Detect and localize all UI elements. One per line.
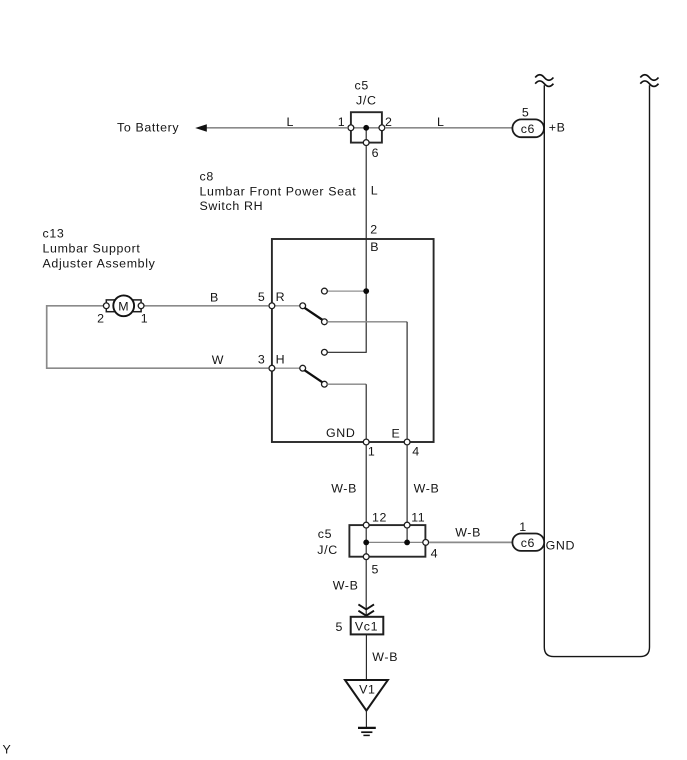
motor terminal 1: [138, 303, 144, 309]
svg-text:W-B: W-B: [455, 525, 481, 539]
wire R output vertical to pin 4: [406, 322, 408, 442]
fixed contact circle (R up position): [322, 288, 328, 294]
wire L to battery: [205, 127, 348, 129]
shield chevrons above Vc1: [358, 604, 374, 615]
svg-text:5: 5: [522, 106, 530, 120]
pin 4 of switch: [404, 439, 410, 445]
wire R output horizontal: [327, 321, 407, 323]
svg-text:4: 4: [431, 546, 439, 560]
svg-text:J/C: J/C: [317, 543, 338, 557]
wire L from J/C c5 pin 2 to connector c6: [385, 127, 512, 129]
svg-text:GND: GND: [546, 538, 575, 552]
wire W from motor terminal 2 to switch pin 3: [47, 306, 269, 368]
svg-text:5: 5: [335, 620, 343, 634]
motor M c13 left brush box: [106, 300, 115, 312]
wire from motor to pin 5 stub inside switch: [272, 305, 300, 307]
junction connector c5 (top) box: [351, 112, 382, 142]
switch c8 body: [272, 239, 434, 442]
svg-text:11: 11: [411, 511, 425, 525]
motor M c13 right brush box: [132, 300, 141, 312]
pin 4 of lower J/C: [423, 540, 429, 546]
svg-text:+B: +B: [549, 120, 566, 134]
wire W-B lower J/C pin 5 down: [365, 560, 367, 617]
switch R arm: [304, 308, 322, 320]
connector Vc1 box: [351, 617, 384, 635]
svg-text:4: 4: [412, 444, 420, 458]
svg-text:V1: V1: [359, 683, 375, 697]
pin 12 of lower J/C: [363, 522, 369, 528]
ground symbol: [358, 728, 376, 736]
svg-text:1: 1: [338, 115, 346, 129]
motor M c13 body: [113, 295, 134, 316]
svg-text:6: 6: [372, 146, 380, 160]
junction dot on B line: [363, 288, 369, 294]
wire +B / GND trunk (U shaped): [544, 85, 649, 656]
pin 5 of lower J/C: [363, 554, 369, 560]
pin 6 of J/C c5: [363, 140, 369, 146]
svg-text:c13: c13: [43, 227, 65, 241]
svg-text:2: 2: [97, 312, 105, 326]
ground point V1 triangle: [345, 680, 388, 711]
switch R moving contact: [322, 319, 328, 325]
wire through J/C c5 pins 1-2: [351, 127, 382, 129]
switch H moving contact: [322, 381, 328, 387]
connector c6 GND pill: [512, 534, 544, 551]
pin 1 of switch: [363, 439, 369, 445]
wire W-B Vc1 to V1: [365, 635, 367, 680]
svg-text:W-B: W-B: [331, 482, 357, 496]
svg-text:c5: c5: [318, 527, 332, 541]
svg-text:W-B: W-B: [333, 578, 359, 592]
break symbol (wavy) on right line: [640, 75, 658, 87]
svg-text:Adjuster Assembly: Adjuster Assembly: [43, 257, 156, 271]
wire W-B switch pin 1 to J/C pin 12: [365, 445, 367, 525]
svg-text:Y: Y: [3, 742, 12, 755]
svg-text:2: 2: [370, 223, 378, 237]
svg-text:Lumbar Support: Lumbar Support: [43, 242, 141, 256]
svg-text:12: 12: [372, 511, 387, 525]
svg-text:Lumbar Front Power Seat: Lumbar Front Power Seat: [200, 184, 357, 198]
svg-text:L: L: [371, 183, 379, 197]
wire pin 3 stub inside switch: [272, 367, 300, 369]
wire W-B switch pin 4 to J/C pin 11: [406, 445, 408, 525]
svg-text:H: H: [276, 353, 286, 367]
svg-text:2: 2: [385, 115, 393, 129]
wire W-B lower J/C pin 4 to connector c6 GND: [429, 541, 512, 543]
svg-text:1: 1: [141, 312, 149, 326]
junction dot inside J/C c5: [363, 125, 369, 131]
svg-text:5: 5: [258, 290, 266, 304]
svg-text:L: L: [437, 115, 445, 129]
svg-text:5: 5: [372, 562, 380, 576]
svg-text:c8: c8: [200, 170, 214, 184]
wire inside lower J/C pin 12 to pin 5: [365, 525, 367, 557]
junction dot lower J/C left: [363, 540, 369, 546]
svg-text:c6: c6: [521, 536, 535, 550]
pin 3 of switch: [269, 365, 275, 371]
svg-text:J/C: J/C: [356, 93, 377, 107]
svg-text:c6: c6: [521, 122, 535, 136]
wire stub J/C c5 center to pin 6: [365, 128, 367, 143]
svg-text:1: 1: [519, 520, 527, 534]
fixed contact stub (R up position): [328, 290, 367, 292]
wire B inside switch: [328, 239, 367, 352]
wire inside lower J/C horizontal to pin 4: [366, 541, 426, 543]
wire H output horizontal: [327, 383, 366, 385]
svg-text:M: M: [118, 300, 129, 314]
svg-text:B: B: [210, 290, 219, 304]
svg-text:W-B: W-B: [414, 482, 440, 496]
svg-text:L: L: [287, 115, 295, 129]
switch H arm: [304, 370, 322, 382]
svg-text:E: E: [391, 426, 400, 440]
wire B from motor terminal 1 to switch pin 5: [144, 305, 268, 307]
svg-text:Switch RH: Switch RH: [200, 199, 264, 213]
junction connector c5 (lower) box: [349, 525, 425, 557]
wire L from J/C c5 pin 6 to switch pin 2: [365, 146, 367, 239]
pin 11 of lower J/C: [404, 522, 410, 528]
wire inside lower J/C pin 11 stub: [406, 525, 408, 542]
switch R pivot contact: [300, 303, 306, 309]
svg-text:Vc1: Vc1: [355, 620, 378, 634]
svg-text:B: B: [370, 240, 379, 254]
arrowhead to battery: [195, 124, 207, 131]
svg-text:W: W: [212, 353, 224, 367]
svg-text:1: 1: [368, 444, 376, 458]
pin 2 of J/C c5: [379, 125, 385, 131]
pin 5 of switch: [269, 303, 275, 309]
junction dot lower J/C right: [404, 540, 410, 546]
svg-text:GND: GND: [326, 426, 355, 440]
svg-text:3: 3: [258, 353, 266, 367]
pin 1 of J/C c5: [348, 125, 354, 131]
svg-text:To Battery: To Battery: [117, 120, 179, 134]
wire H output vertical to pin 1: [365, 384, 367, 442]
svg-text:R: R: [276, 290, 286, 304]
svg-text:c5: c5: [355, 78, 369, 92]
break symbol (wavy) on +B line: [535, 75, 553, 87]
svg-text:W-B: W-B: [372, 650, 398, 664]
wire V1 to ground: [365, 711, 367, 727]
switch H pivot contact: [300, 365, 306, 371]
motor terminal 2: [103, 303, 109, 309]
connector c6 +B pill: [512, 119, 544, 137]
fixed contact circle (H up position): [322, 349, 328, 355]
